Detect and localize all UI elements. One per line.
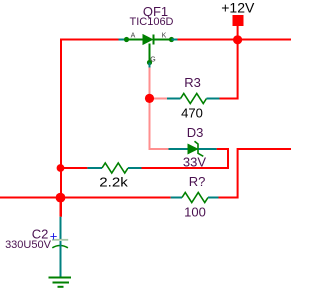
cap curved plate — [52, 246, 68, 248]
pin A dot — [124, 37, 129, 42]
ground bar 1 — [49, 277, 72, 279]
pin stub right — [207, 98, 220, 100]
anode lead — [127, 39, 144, 41]
wire highlighted gate net to R3 left (pink) — [150, 98, 168, 100]
resistor R3 470 — [167, 75, 220, 121]
svg-text:470: 470 — [181, 106, 203, 121]
svg-text:TIC106D: TIC106D — [129, 16, 173, 28]
cap positive plate — [52, 239, 68, 241]
pin G dot — [147, 60, 152, 65]
pin stub left — [167, 98, 181, 100]
node +12V power port — [221, 0, 255, 44]
pin G stub — [149, 63, 151, 68]
cathode lead — [154, 39, 172, 41]
wire bottom rail y=197.5 — [0, 197, 171, 199]
SCR cathode bar — [153, 35, 155, 45]
zigzag body — [181, 94, 207, 104]
svg-text:R3: R3 — [184, 75, 201, 90]
+12V stub — [237, 26, 239, 40]
capacitor C2 330U50V — [5, 198, 68, 278]
cap pin teal upper — [60, 217, 62, 239]
wire bottom rail right segment to riser — [219, 149, 292, 198]
wire top rail from SCR cathode to right end — [178, 39, 292, 41]
SCR triangle — [143, 35, 153, 45]
svg-text:A: A — [131, 33, 136, 40]
+12V square symbol — [233, 15, 244, 26]
svg-text:330U50V: 330U50V — [5, 239, 52, 251]
ground bar 2 — [53, 282, 70, 284]
svg-text:G: G — [150, 57, 155, 64]
gate lead — [149, 44, 151, 63]
svg-text:33V: 33V — [183, 155, 206, 170]
resistor 2.2k — [87, 163, 141, 190]
pin stub right — [128, 167, 142, 169]
ground symbol — [49, 278, 72, 287]
cap top pin (red wire stub from junction) — [60, 198, 62, 217]
pin stub left — [169, 148, 189, 150]
wire +12V rail down to R3 right — [220, 40, 238, 99]
zigzag body — [182, 193, 208, 203]
pin stub left — [87, 167, 102, 169]
pin A stub — [119, 39, 127, 41]
svg-text:+12V: +12V — [221, 0, 255, 16]
ground bar 3 — [58, 286, 64, 288]
pin stub right — [199, 148, 217, 150]
diode D3 zener 33V — [169, 125, 217, 170]
svg-text:100: 100 — [184, 205, 206, 220]
diode triangle — [188, 144, 198, 153]
wire top rail from left corner to SCR anode — [61, 40, 119, 217]
op-amp none / transistor QF1 SCR TIC106D — [119, 4, 178, 67]
junction dot gate/R3 node — [145, 94, 154, 103]
pin K dot — [169, 37, 174, 42]
junction dot left rail / bottom rail — [56, 193, 66, 203]
cap bottom pin teal — [60, 241, 62, 277]
pin stub right — [208, 197, 219, 199]
wire highlighted gate net vertical (pink) — [150, 67, 169, 149]
svg-text:R?: R? — [189, 174, 206, 189]
zigzag body — [102, 163, 128, 173]
wire 2.2k right to D3 cathode riser — [142, 149, 229, 168]
junction dot at +12V rail — [233, 35, 242, 44]
svg-text:D3: D3 — [187, 125, 204, 140]
pin K stub — [172, 39, 178, 41]
zener bar with tails — [195, 141, 204, 156]
junction dot left rail / 2.2k — [57, 164, 65, 172]
pin stub left — [171, 197, 182, 199]
resistor R? 100 — [171, 174, 219, 220]
svg-text:K: K — [162, 33, 167, 40]
wire 2.2k row y=168 — [61, 167, 88, 169]
svg-text:2.2k: 2.2k — [99, 175, 128, 190]
